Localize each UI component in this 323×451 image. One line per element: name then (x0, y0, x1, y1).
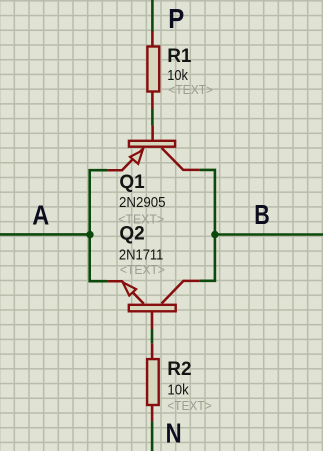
transistor Q2 emitter arrow (123, 282, 136, 295)
svg-text:R2: R2 (167, 359, 191, 380)
pin R1.1 (151, 31, 154, 47)
transistor Q1 emitter (107, 148, 144, 170)
junction node B (211, 231, 218, 238)
wire R1 to Q1 (151, 109, 154, 125)
svg-text:Q1: Q1 (119, 172, 145, 193)
svg-text:R1: R1 (167, 46, 192, 67)
svg-text:<TEXT>: <TEXT> (168, 82, 213, 97)
wire Q1 emitter to node A branch (90, 170, 107, 281)
transistor Q2 base pin (151, 312, 154, 329)
pin R2.2 (151, 405, 154, 421)
svg-text:A: A (32, 200, 49, 231)
resistor R1 (147, 47, 159, 92)
svg-text:N: N (166, 417, 182, 448)
transistor Q1 base bar (129, 141, 175, 147)
transistor Q1 base pin (151, 125, 154, 140)
svg-text:P: P (168, 3, 184, 34)
transistor Q2 emitter (107, 281, 144, 303)
svg-text:10k: 10k (167, 382, 189, 399)
transistor Q2 base bar (129, 305, 176, 312)
pin R2.1 (151, 343, 154, 359)
wire P (top vertical) (151, 0, 154, 32)
transistor Q1 emitter arrow (130, 150, 143, 164)
svg-text:<TEXT>: <TEXT> (120, 262, 165, 277)
transistor Q2 collector (162, 281, 200, 304)
junction node A (86, 231, 93, 238)
transistor Q1 collector (162, 148, 200, 170)
svg-text:2N1711: 2N1711 (119, 246, 163, 263)
svg-text:2N2905: 2N2905 (119, 194, 166, 211)
wire Q2 to R2 (151, 329, 154, 343)
pin R1.2 (151, 92, 154, 110)
wire N (bottom vertical) (151, 421, 154, 451)
wire node B horizontal (215, 233, 323, 236)
svg-text:Q2: Q2 (119, 224, 144, 245)
resistor R2 (147, 359, 159, 405)
svg-text:B: B (254, 199, 270, 230)
wire Q1 collector to node B branch (199, 170, 215, 281)
svg-text:<TEXT>: <TEXT> (167, 398, 212, 413)
wire node A horizontal (0, 233, 90, 236)
